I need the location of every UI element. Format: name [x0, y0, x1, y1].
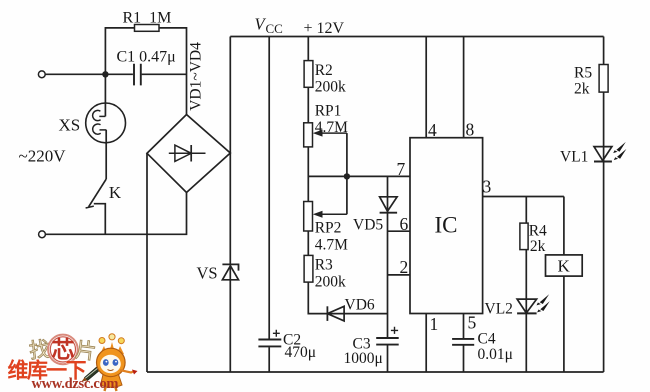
- wire wiper vertical link: [346, 133, 348, 214]
- svg-text:RP1: RP1: [315, 103, 342, 120]
- svg-text:1: 1: [430, 314, 439, 334]
- wire node line to IC pin 7: [308, 175, 410, 177]
- wire VCC rail +12V: [230, 36, 603, 38]
- potentiometer RP2: [304, 202, 348, 254]
- svg-text:XS: XS: [59, 116, 81, 135]
- svg-text:8: 8: [466, 120, 475, 140]
- svg-text:0.01μ: 0.01μ: [478, 346, 513, 363]
- wire VCC down through VS to bus: [229, 37, 231, 373]
- wire ground bus: [147, 371, 604, 373]
- mascot: [82, 334, 138, 391]
- diode VD6: [327, 297, 374, 321]
- capacitor C4: [452, 331, 513, 363]
- svg-text:470μ: 470μ: [285, 344, 317, 361]
- wire pin 4: [425, 37, 427, 138]
- svg-text:200k: 200k: [315, 79, 346, 96]
- svg-text:VD6: VD6: [345, 297, 375, 314]
- wire pin 1: [425, 314, 427, 373]
- LED VL1: [560, 142, 626, 166]
- wire pin2 stub: [388, 274, 411, 276]
- wire top AC input to C1: [45, 73, 133, 75]
- svg-text:5: 5: [468, 313, 477, 333]
- svg-text:4.7M: 4.7M: [315, 237, 348, 254]
- svg-text:VD1~VD4: VD1~VD4: [188, 42, 205, 111]
- svg-text:7: 7: [397, 159, 406, 179]
- svg-text:2k: 2k: [530, 238, 546, 255]
- svg-text:R1 1M: R1 1M: [123, 10, 172, 27]
- svg-text:C1 0.47μ: C1 0.47μ: [117, 49, 176, 66]
- svg-text:VS: VS: [197, 264, 218, 283]
- svg-text:R2: R2: [315, 62, 333, 79]
- svg-text:IC: IC: [435, 213, 458, 238]
- wire VD5 C3 vertical line: [387, 176, 389, 372]
- op-amp IC U1 box: [410, 138, 483, 314]
- resistor R4: [520, 223, 547, 256]
- LED VL2: [485, 294, 550, 317]
- capacitor C3: [344, 327, 399, 367]
- wire R4 VL2 branch: [525, 197, 527, 373]
- svg-text:2: 2: [400, 257, 409, 277]
- wire bottom AC to bridge bottom corner: [46, 193, 187, 235]
- socket XS: [59, 74, 126, 179]
- svg-text:4: 4: [428, 120, 437, 140]
- wire C2 branch from rail: [268, 37, 270, 373]
- svg-text:+ 12V: + 12V: [304, 20, 345, 37]
- wire bridge left corner to ground bus: [146, 153, 148, 372]
- svg-text:VL1: VL1: [560, 149, 588, 166]
- wire C1 right plate to bridge top line: [142, 73, 187, 75]
- wire pin 8: [463, 37, 465, 138]
- svg-text:~220V: ~220V: [19, 147, 67, 166]
- svg-text:R4: R4: [529, 223, 547, 240]
- resistor R5: [574, 65, 608, 98]
- zener VS: [197, 264, 239, 283]
- wire pin 3 stub: [483, 196, 564, 198]
- wire relay K branch: [563, 197, 565, 373]
- svg-text:1000μ: 1000μ: [344, 350, 383, 367]
- svg-text:K: K: [109, 183, 122, 202]
- svg-text:2k: 2k: [574, 81, 590, 98]
- svg-text:VD5: VD5: [353, 217, 383, 234]
- svg-text:R3: R3: [315, 257, 333, 274]
- capacitor C2: [258, 330, 316, 361]
- svg-text:3: 3: [483, 177, 492, 197]
- svg-text:6: 6: [400, 214, 409, 234]
- svg-text:R5: R5: [574, 65, 592, 82]
- wire right edge R5 VL1 branch: [603, 37, 605, 373]
- wire pin 5 and C4: [463, 314, 465, 373]
- svg-text:4.7M: 4.7M: [315, 119, 348, 136]
- relay K: [546, 255, 583, 276]
- svg-text:200k: 200k: [315, 274, 346, 291]
- bridge rectifier VD1~VD4: [147, 42, 230, 193]
- diode VD5: [353, 197, 397, 234]
- resistor R2: [304, 61, 346, 96]
- svg-text:VL2: VL2: [485, 301, 513, 318]
- watermark logo dzsc: [8, 334, 138, 392]
- wire pin6 stub: [388, 230, 411, 232]
- switch K: [86, 179, 122, 234]
- capacitor C1: [117, 49, 176, 86]
- svg-text:www.dzsc.com: www.dzsc.com: [32, 376, 119, 392]
- junction dot node B: [344, 173, 350, 179]
- junction dot node A: [102, 71, 108, 77]
- terminal T1 (top AC input): [38, 71, 45, 78]
- wire resistor chain R2 RP1 RP2 R3: [308, 37, 387, 314]
- resistor R1: [123, 10, 172, 32]
- terminal T2 (bottom AC input): [39, 231, 46, 238]
- potentiometer RP1: [304, 103, 348, 147]
- svg-text:K: K: [558, 257, 571, 276]
- wire R1 branch loop: [105, 28, 186, 115]
- svg-text:RP2: RP2: [315, 220, 342, 237]
- svg-text:CC: CC: [266, 21, 283, 36]
- resistor R3: [304, 255, 346, 290]
